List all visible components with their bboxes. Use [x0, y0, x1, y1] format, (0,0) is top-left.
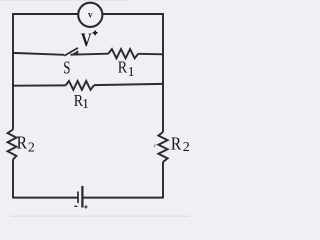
top edge scan smudge: [0, 0, 130, 1]
wire branch3 right segment: [94, 84, 163, 85]
svg-text:2: 2: [28, 140, 35, 155]
wire top-right segment: [102, 13, 163, 15]
label R1 (middle branch): [74, 92, 89, 112]
svg-text:S: S: [63, 57, 70, 77]
wire top-left segment: [13, 13, 78, 15]
wire right rail upper: [162, 13, 164, 132]
battery positive plate (long): [81, 186, 83, 208]
label V*: [81, 29, 99, 50]
label R2 (right): [171, 134, 190, 155]
svg-text:v: v: [88, 9, 93, 19]
svg-text:R: R: [17, 133, 28, 153]
battery minus mark: [74, 205, 77, 207]
wire branch2 middle segment: [71, 54, 109, 55]
wire branch2 right segment: [138, 53, 163, 56]
label R1 (top branch): [118, 59, 135, 81]
svg-text:R: R: [118, 59, 128, 77]
wire bottom-right segment: [82, 197, 163, 199]
svg-text:R: R: [171, 134, 182, 154]
svg-text:1: 1: [128, 65, 135, 80]
wire left rail lower: [12, 159, 14, 198]
battery plus mark: [84, 205, 87, 208]
svg-text:2: 2: [183, 140, 190, 155]
label R2 (left): [17, 133, 35, 156]
bottom edge scan shadow: [10, 216, 190, 217]
voltmeter V*: [78, 3, 102, 27]
switch S contact arrowhead: [71, 50, 79, 55]
wire branch2 left segment: [13, 53, 64, 55]
svg-text:V: V: [81, 29, 92, 50]
wire right rail lower: [162, 162, 164, 199]
stray scan mark near right R2: [154, 144, 155, 147]
svg-text:1: 1: [82, 97, 89, 112]
wire branch3 left segment: [13, 84, 66, 86]
wire bottom-left segment: [13, 197, 78, 199]
switch S blade: [64, 48, 78, 56]
resistor R2 (left): [8, 130, 17, 160]
resistor R2 (right): [158, 132, 167, 162]
battery negative plate (short): [77, 192, 79, 204]
resistor R1 (middle branch): [66, 81, 94, 90]
resistor R1 (top branch): [108, 49, 138, 58]
wire left rail upper: [12, 13, 14, 130]
